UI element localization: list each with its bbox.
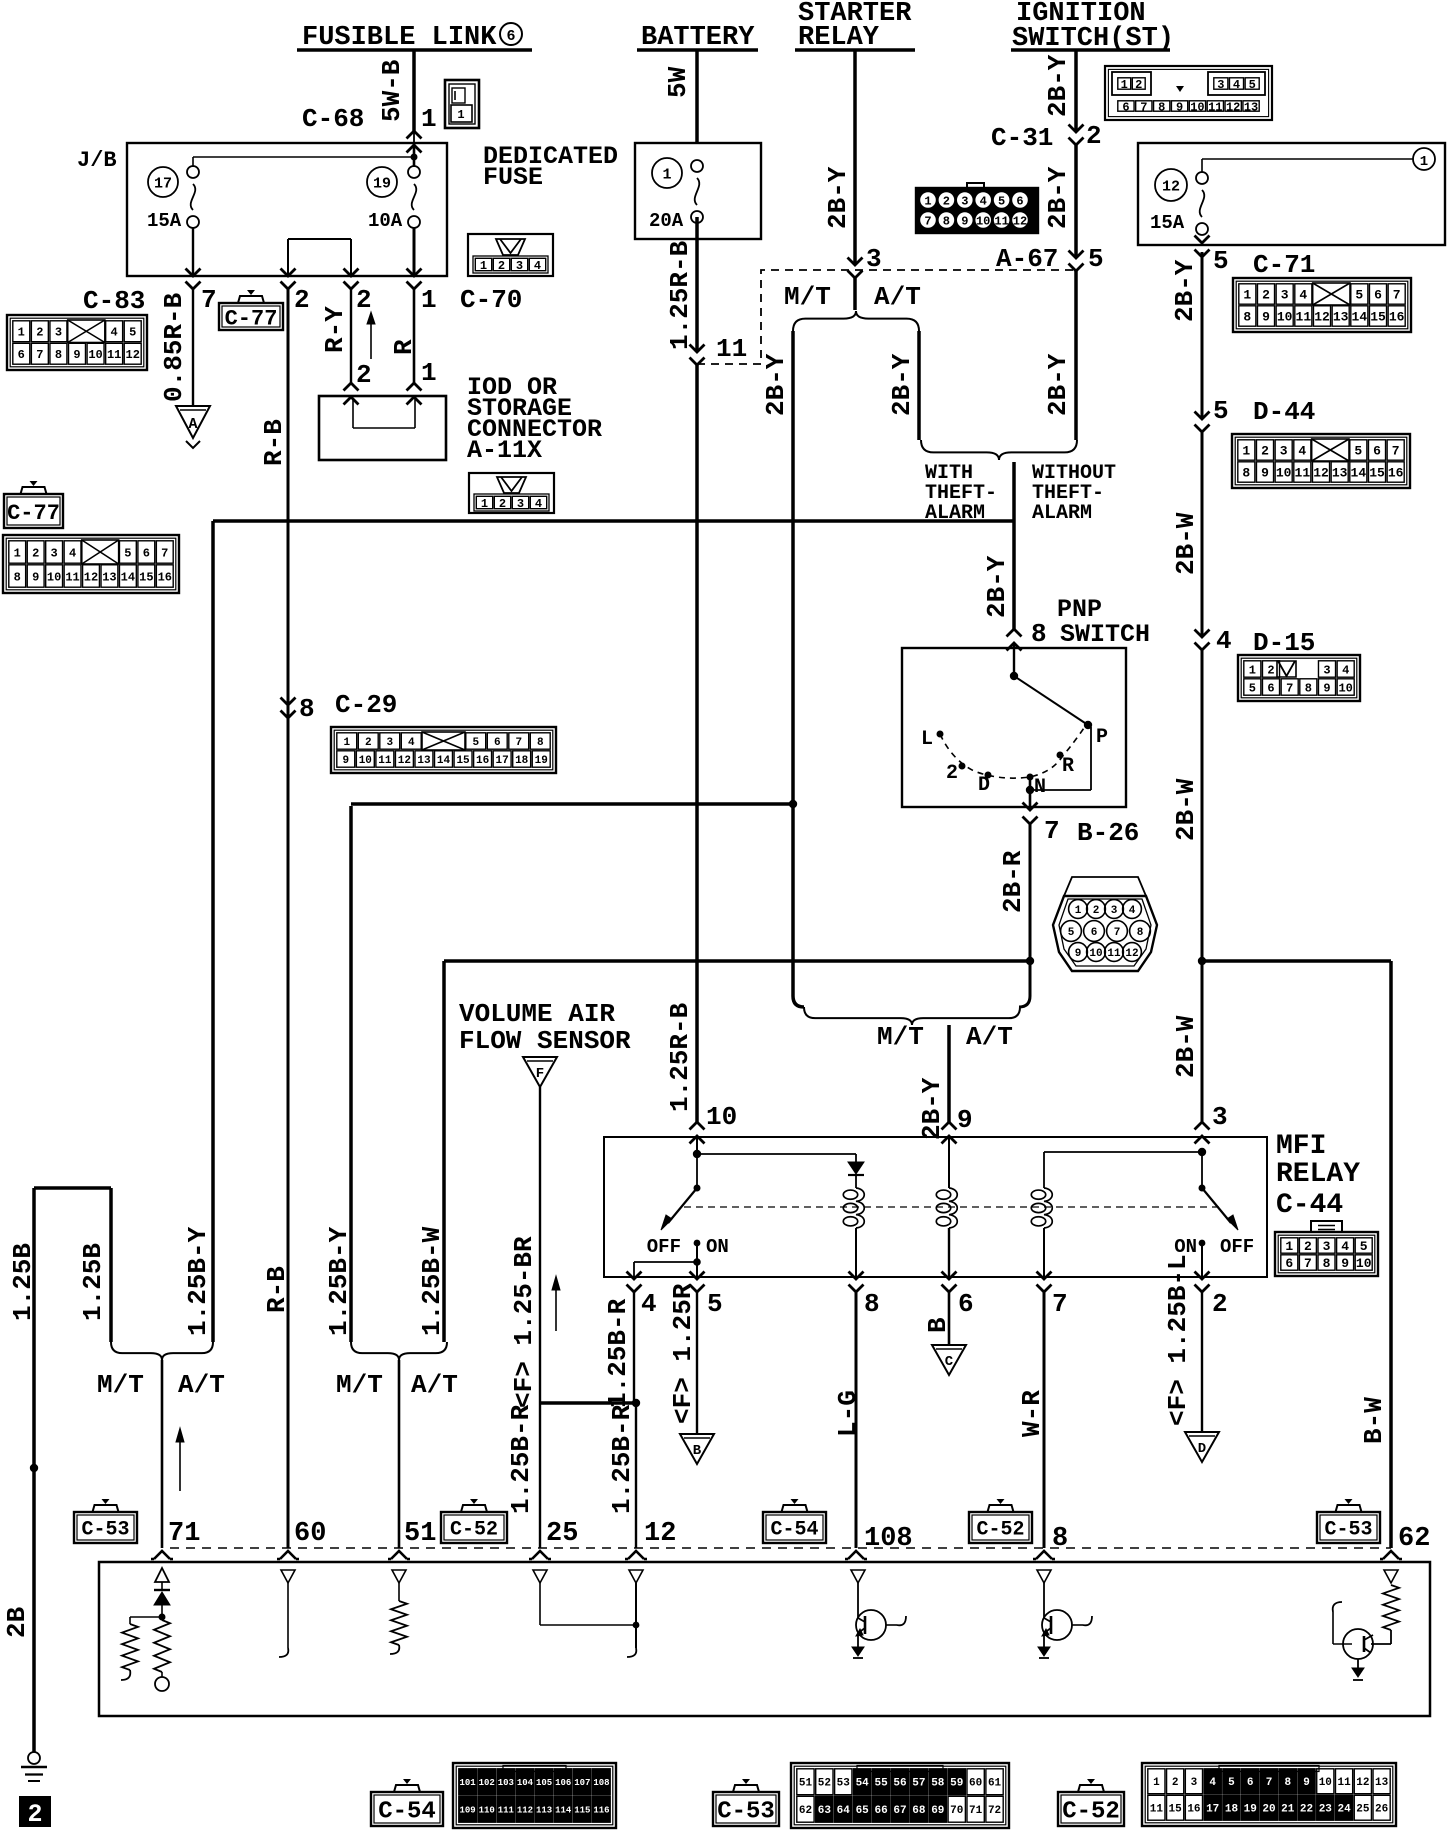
svg-text:5: 5 [1228,1777,1235,1789]
svg-text:20A: 20A [649,210,684,232]
svg-text:9: 9 [1075,948,1082,960]
svg-text:R-B: R-B [259,419,289,466]
svg-text:110: 110 [479,1805,495,1815]
svg-text:1: 1 [480,259,487,273]
svg-text:0.85R-B: 0.85R-B [159,292,189,402]
wire 2B-W to junction [1171,650,1202,961]
label WITHOUT THEFT-ALARM [1032,462,1116,525]
svg-text:C-53: C-53 [81,1519,129,1542]
J/B pin 1 connector arrows [407,269,422,290]
wire R-Y [320,289,372,390]
wire 2B-R to junction [998,824,1030,961]
svg-text:1: 1 [481,497,488,511]
fuse 12 15A [1150,169,1208,235]
label MFI RELAY C-44 [1276,1131,1360,1221]
svg-text:C-77: C-77 [7,501,60,526]
page number 2 [19,1796,51,1829]
ECU input pin 60 [279,1570,295,1657]
MFI relay switch 1 (left) [647,1154,729,1258]
svg-text:C-54: C-54 [378,1799,436,1826]
svg-text:22: 22 [1300,1804,1313,1816]
svg-text:111: 111 [498,1805,515,1815]
fuse 17 15A [147,166,199,232]
svg-text:C-44: C-44 [1276,1190,1343,1221]
svg-text:72: 72 [988,1805,1001,1817]
wire W-R pin7 to ECU pin 8 [1017,1292,1047,1548]
wire 0.85R-B [159,289,193,406]
svg-text:8: 8 [1031,619,1047,649]
svg-text:7: 7 [1052,1289,1068,1319]
svg-text:M/T: M/T [97,1370,144,1400]
label C-70 [460,285,522,315]
svg-text:5W: 5W [663,66,693,98]
svg-text:57: 57 [912,1778,925,1790]
J/B pin 2 connector arrows [281,269,296,290]
svg-text:9: 9 [1303,1777,1310,1789]
connector C-83 12-pin [7,315,147,370]
connector D-15 10-pin [1238,655,1360,701]
svg-text:14: 14 [121,570,135,584]
svg-text:<F> 1.25B-L: <F> 1.25B-L [1163,1254,1193,1426]
svg-text:4: 4 [111,326,118,340]
ECU input pin 71 diode and resistors [121,1568,170,1691]
ECU output transistor pin 108 [851,1570,906,1658]
svg-text:8: 8 [537,737,544,749]
MFI relay pin 10 entry arrows [690,1102,738,1144]
svg-text:11: 11 [1208,100,1222,114]
ECU pin 25 [529,1519,578,1559]
svg-text:8: 8 [1305,681,1312,695]
svg-text:8: 8 [1137,927,1144,939]
svg-text:2B-W: 2B-W [1171,1015,1201,1078]
wire stub below arrow 3 [853,278,857,310]
svg-text:16: 16 [158,570,172,584]
svg-text:64: 64 [837,1805,851,1817]
svg-text:107: 107 [574,1778,590,1788]
dedicated fuse box [635,143,761,239]
svg-text:63: 63 [818,1805,832,1817]
power source label BATTERY [637,23,758,53]
PNP contact dots and labels [921,726,1108,799]
svg-text:11: 11 [1107,948,1121,960]
svg-text:114: 114 [555,1805,572,1815]
svg-text:SWITCH: SWITCH [1060,620,1150,649]
connector B-26 hex icon [1053,877,1157,971]
wire 1.25B-R pin4 to junction [603,1292,634,1408]
svg-text:R-Y: R-Y [320,306,350,353]
svg-text:12: 12 [1313,466,1329,481]
svg-text:A: A [188,416,197,433]
svg-text:1.25B-Y: 1.25B-Y [183,1226,213,1336]
svg-text:5: 5 [124,546,131,560]
wire 1.25B-W A/T branch [417,961,447,1342]
svg-text:2: 2 [294,285,310,315]
svg-text:12: 12 [84,570,98,584]
svg-text:9: 9 [1341,1256,1349,1271]
J/B pin 2b connector arrows [344,269,359,290]
svg-text:5: 5 [1249,78,1256,92]
svg-text:4: 4 [1341,1239,1349,1254]
svg-text:19: 19 [1244,1804,1257,1816]
svg-text:4: 4 [408,737,415,749]
svg-text:6: 6 [494,737,501,749]
svg-text:2: 2 [498,259,505,273]
svg-text:9: 9 [73,348,80,362]
svg-text:C-31: C-31 [991,123,1053,153]
svg-text:7: 7 [1266,1777,1273,1789]
svg-text:17: 17 [496,755,509,767]
relay coil K1 [843,1188,864,1277]
svg-text:C: C [945,1354,954,1370]
wire pin5 to triangle B [668,1283,698,1434]
svg-text:6: 6 [1373,444,1381,459]
svg-text:R: R [1062,755,1074,778]
svg-text:1: 1 [457,108,464,122]
svg-text:9: 9 [961,215,968,229]
svg-text:1.25B-Y: 1.25B-Y [324,1226,354,1336]
wire B pin6 to triangle C [923,1292,953,1345]
svg-text:3: 3 [516,259,523,273]
svg-text:60: 60 [294,1519,326,1549]
connector label box C-53 bottom [713,1779,779,1826]
svg-text:10: 10 [1276,466,1292,481]
svg-text:102: 102 [479,1778,495,1788]
junction block J/B box [77,143,447,276]
svg-text:19: 19 [373,175,391,192]
svg-text:3: 3 [55,326,62,340]
svg-text:8: 8 [299,694,315,724]
svg-text:16: 16 [1187,1804,1200,1816]
svg-text:8: 8 [1323,1256,1331,1271]
wire 1.25B left loop [2,1188,111,1752]
svg-text:10: 10 [1190,100,1204,114]
diode D1 in MFI relay [848,1154,864,1188]
svg-text:6: 6 [506,28,515,45]
MFI internal node pin10 [693,1136,701,1158]
label C-83 [83,286,145,316]
PNP exit arrows pin 7 [1023,803,1140,849]
wire 1.25B-Y M/T branch mid [324,806,354,1342]
svg-text:112: 112 [517,1805,533,1815]
svg-text:3: 3 [1111,905,1118,917]
svg-text:7: 7 [1392,444,1400,459]
ECU input pin 51 resistor [390,1570,407,1654]
svg-text:B: B [693,1443,702,1459]
svg-text:C-68: C-68 [302,104,364,134]
svg-text:58: 58 [931,1778,945,1790]
svg-text:5: 5 [998,195,1005,209]
svg-text:R-B: R-B [262,1266,292,1313]
connector C-70 icon [468,234,553,276]
svg-text:1: 1 [1121,78,1128,92]
svg-text:4: 4 [980,195,987,209]
svg-text:1: 1 [1420,154,1428,170]
svg-text:B-W: B-W [1359,1397,1389,1444]
svg-text:68: 68 [912,1805,926,1817]
svg-text:9: 9 [1323,681,1330,695]
ECU pin 8 [1033,1524,1068,1559]
svg-text:4: 4 [1299,288,1307,303]
svg-text:D-44: D-44 [1253,397,1315,427]
svg-text:19: 19 [535,755,548,767]
ground symbol bottom left [21,1752,47,1781]
svg-text:2: 2 [946,762,958,785]
svg-text:11: 11 [1295,466,1311,481]
svg-text:2B-W: 2B-W [1171,778,1201,841]
svg-text:115: 115 [574,1805,590,1815]
svg-text:1: 1 [421,358,437,388]
connector label box C-54 near pin 108 [763,1499,826,1543]
svg-text:1.25B: 1.25B [8,1243,38,1321]
svg-text:2: 2 [356,360,372,390]
svg-text:1: 1 [1242,444,1250,459]
svg-text:L-G: L-G [833,1390,863,1437]
svg-text:11: 11 [378,755,392,767]
svg-text:4: 4 [1216,626,1232,656]
svg-text:71: 71 [969,1805,983,1817]
svg-text:1: 1 [1153,1777,1160,1789]
svg-text:5: 5 [1068,927,1075,939]
ECU pin 71 [151,1519,200,1559]
svg-text:4: 4 [1209,1777,1216,1789]
svg-text:2: 2 [1304,1239,1312,1254]
svg-text:8: 8 [55,348,62,362]
svg-text:L: L [921,728,933,751]
wire 2B-Y right [1170,252,1202,419]
label PNP SWITCH [1057,595,1150,649]
svg-text:2B-R: 2B-R [998,850,1028,913]
wire 2B-Y to PNP switch [982,521,1014,629]
MFI relay pin 3 entry arrows [1195,1102,1228,1144]
svg-text:2B-Y: 2B-Y [1170,259,1200,322]
svg-text:2: 2 [1086,121,1102,151]
MFI switch2 output [1201,1243,1203,1277]
svg-text:D: D [1198,1441,1206,1457]
svg-text:3: 3 [51,546,58,560]
svg-text:1: 1 [662,166,671,183]
fuse 1 20A [649,158,703,232]
dashed harness line from pin 11 [697,270,1074,364]
ECU pin 51 [388,1519,436,1559]
svg-text:61: 61 [988,1778,1002,1790]
svg-text:13: 13 [1332,466,1348,481]
svg-text:ON: ON [706,1236,729,1258]
svg-text:8: 8 [1158,100,1165,114]
connector A-11X icon [469,473,554,513]
wire 1.25B-Y A/T branch left [183,521,213,1342]
ECU pin 62 [1380,1524,1430,1559]
svg-text:5: 5 [1088,244,1104,274]
svg-text:106: 106 [555,1778,571,1788]
svg-text:2: 2 [1212,1289,1228,1319]
svg-text:8: 8 [1242,466,1250,481]
ECU pin 60 [277,1519,326,1559]
ECU harness dashed line [170,1547,1391,1549]
MFI relay pin 7 exit arrows [1037,1272,1068,1320]
svg-text:3: 3 [1212,1102,1228,1132]
svg-text:3: 3 [1217,78,1224,92]
svg-text:4: 4 [1129,905,1136,917]
svg-text:10: 10 [1319,1777,1332,1789]
svg-text:J/B: J/B [77,148,117,173]
svg-text:14: 14 [437,755,451,767]
MFI relay internal dashed link [684,1206,1224,1208]
wire theft-alarm stem [1012,462,1016,521]
svg-text:C-77: C-77 [225,306,278,331]
PNP contact P branch [1026,727,1091,794]
svg-text:6: 6 [1122,100,1129,114]
svg-text:1: 1 [1243,288,1251,303]
svg-text:1.25R-B: 1.25R-B [665,240,695,350]
wire 1.25B-L pin2 to triangle D [1163,1254,1202,1432]
flow arrow up on sensor wire [552,1276,560,1331]
svg-text:5: 5 [1213,246,1229,276]
svg-text:12: 12 [126,348,140,362]
svg-text:F: F [536,1066,544,1082]
connector label box C-53 near pin 62 [1317,1499,1380,1543]
svg-text:4: 4 [535,497,542,511]
connector C-68 icon [445,80,479,128]
svg-text:MFI: MFI [1276,1131,1326,1162]
svg-text:2: 2 [27,1800,42,1829]
svg-text:4: 4 [534,259,541,273]
wire 1.25-BR from sensor [506,1087,540,1548]
svg-text:101: 101 [459,1778,476,1788]
ECU pin 12 [625,1519,676,1559]
brace M/T A/T starter split [784,282,921,331]
svg-text:OFF: OFF [1220,1236,1254,1258]
svg-text:2: 2 [1262,288,1270,303]
wire 5W-B from fusible link [377,50,414,131]
svg-text:8: 8 [1284,1777,1291,1789]
svg-text:3: 3 [1281,288,1289,303]
connector A-67 arrows pin 5 [996,244,1104,274]
svg-text:11: 11 [1150,1804,1164,1816]
svg-text:1: 1 [14,546,21,560]
svg-text:109: 109 [459,1805,475,1815]
svg-text:M/T: M/T [336,1370,383,1400]
label DEDICATED FUSE [483,142,618,192]
svg-text:OFF: OFF [647,1236,681,1258]
svg-text:9: 9 [1176,100,1183,114]
svg-text:1.25B: 1.25B [78,1243,108,1321]
MFI relay box C-44 [604,1137,1267,1277]
MFI relay pin 4 exit arrows [627,1272,657,1320]
svg-text:5: 5 [1213,396,1229,426]
svg-text:69: 69 [931,1805,944,1817]
connector C-31 12-pin icon [916,183,1038,233]
ECU pin 108 [845,1524,913,1559]
svg-text:103: 103 [498,1778,514,1788]
svg-text:C-70: C-70 [460,285,522,315]
connector C-53 ECU icon [791,1763,1009,1828]
svg-text:D-15: D-15 [1253,628,1315,658]
MFI internal wire pin10 to diode [697,1153,856,1155]
svg-text:10: 10 [706,1102,737,1132]
wire 2B-W to MFI relay pin 3 [1171,961,1202,1122]
flow arrow up [367,312,375,359]
wire 2B-Y ignition lower [1043,271,1076,440]
svg-text:104: 104 [517,1778,534,1788]
svg-text:11: 11 [716,334,747,364]
label VOLUME AIR FLOW SENSOR [459,999,631,1056]
svg-text:1: 1 [343,737,350,749]
connector label box C-53 near pin 71 [74,1499,137,1543]
svg-text:12: 12 [1162,178,1180,195]
connector C-68 in-line arrows [407,131,422,153]
wire 1.25B-R junction to ECU pin 12 [607,1403,637,1548]
remote triangle B [680,1434,714,1464]
svg-text:55: 55 [874,1778,888,1790]
wire L-G pin8 to ECU pin 108 [833,1292,863,1548]
svg-text:7: 7 [1286,681,1293,695]
svg-text:13: 13 [417,755,431,767]
svg-text:1.25R-B: 1.25R-B [665,1002,695,1112]
svg-text:3: 3 [1191,1777,1198,1789]
svg-text:3: 3 [1280,444,1288,459]
svg-text:2: 2 [356,285,372,315]
PNP switch box [902,648,1126,807]
label IOD OR STORAGE CONNECTOR A-11X [467,373,602,465]
svg-text:62: 62 [1398,1524,1430,1554]
svg-text:M/T: M/T [784,282,831,312]
label C-68 [302,104,364,134]
svg-text:9: 9 [957,1105,973,1135]
svg-text:26: 26 [1375,1804,1388,1816]
svg-text:66: 66 [874,1805,887,1817]
svg-text:A/T: A/T [966,1022,1013,1052]
svg-text:113: 113 [536,1805,552,1815]
svg-text:16: 16 [1388,466,1404,481]
svg-text:15: 15 [1370,310,1386,325]
connector D-44 16-pin [1232,434,1410,488]
svg-text:54: 54 [856,1778,870,1790]
svg-text:12: 12 [1356,1777,1369,1789]
svg-text:D: D [978,774,990,797]
svg-text:2: 2 [1261,444,1269,459]
svg-text:<F> 1.25R: <F> 1.25R [668,1283,698,1424]
svg-text:56: 56 [893,1778,906,1790]
connector ignition switch 13-pin icon [1105,66,1272,120]
PNP switch entry arrows pin 8 [1007,619,1047,651]
svg-text:C-53: C-53 [717,1799,775,1826]
svg-text:15A: 15A [1150,212,1185,234]
svg-text:10: 10 [47,570,61,584]
svg-text:5W-B: 5W-B [377,59,407,122]
svg-text:7: 7 [201,285,217,315]
svg-text:2: 2 [36,326,43,340]
wire 1.25R-B to MFI relay pin 10 [665,365,697,1122]
svg-text:53: 53 [837,1778,851,1790]
ECU output transistor pin 8 [1037,1570,1092,1658]
IOD or storage connector box A-11X [319,396,446,460]
svg-text:1.25B-R: 1.25B-R [607,1404,637,1514]
svg-text:108: 108 [593,1778,609,1788]
MFI internal wire pin3 to coil K3 [1044,1148,1206,1156]
svg-text:10: 10 [1089,948,1102,960]
svg-text:6: 6 [1374,288,1382,303]
J/B internal bus bridge [288,239,351,276]
svg-text:71: 71 [168,1519,200,1549]
svg-text:18: 18 [515,755,529,767]
fuse box (fuse 12) [1138,143,1445,245]
svg-text:FUSE: FUSE [483,163,543,192]
wire 2B-Y M/T to brace [793,996,804,1007]
svg-text:C-83: C-83 [83,286,145,316]
svg-text:11: 11 [107,348,121,362]
svg-text:67: 67 [893,1805,906,1817]
wire B-W to ECU pin 62 [1359,961,1391,1548]
